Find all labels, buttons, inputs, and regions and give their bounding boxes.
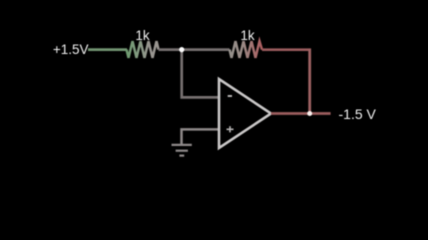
resistor R1 1k bbox=[127, 41, 159, 58]
op-amp noninverting pin mark bbox=[227, 126, 234, 132]
op-amp U1 bbox=[219, 79, 271, 148]
wire noninverting input to ground bbox=[182, 129, 220, 145]
ground bbox=[172, 145, 192, 156]
svg-text:1k: 1k bbox=[240, 28, 255, 43]
wire output red bbox=[271, 112, 331, 115]
resistor R2 1k feedback bbox=[230, 41, 263, 58]
wire feedback vertical red bbox=[308, 49, 311, 114]
svg-text:1k: 1k bbox=[135, 28, 150, 43]
node OUT junction dot bbox=[307, 111, 312, 116]
wire input green bbox=[88, 48, 127, 51]
op-amp inverting pin mark bbox=[228, 95, 232, 97]
svg-text:+1.5V: +1.5V bbox=[53, 42, 89, 57]
svg-text:-1.5 V: -1.5 V bbox=[339, 106, 377, 122]
wire node A down to inverting input bbox=[182, 50, 219, 98]
node A junction dot bbox=[179, 47, 184, 52]
wire R2 to corner red bbox=[262, 48, 311, 51]
wire from R1 to node A bbox=[159, 48, 230, 51]
